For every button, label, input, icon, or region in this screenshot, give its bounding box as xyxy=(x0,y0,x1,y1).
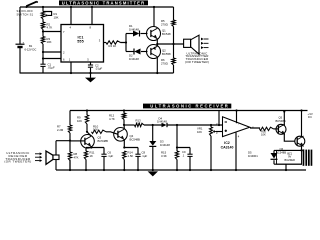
wire Q5 collector xyxy=(283,110,285,125)
svg-text:.01µF: .01µF xyxy=(95,67,102,71)
label transducer tx xyxy=(185,51,209,63)
wire IC1 pin5 stub xyxy=(90,62,92,73)
battery B1 xyxy=(16,40,25,47)
svg-text:10K: 10K xyxy=(77,119,82,123)
wire Q6 emitter xyxy=(301,145,303,150)
svg-text:(OR TWEETER): (OR TWEETER) xyxy=(4,160,31,164)
svg-text:1N4148: 1N4148 xyxy=(157,119,167,123)
svg-text:Q5: Q5 xyxy=(279,116,283,120)
wire output node to speaker xyxy=(156,43,183,45)
resistor R8 bias lower xyxy=(68,140,71,170)
svg-text:BC558: BC558 xyxy=(162,52,171,56)
wire D5 branch xyxy=(273,150,275,153)
svg-text:10K: 10K xyxy=(93,127,98,131)
diode D4 xyxy=(162,123,168,127)
wire pin3 out xyxy=(104,42,107,44)
svg-text:BC548B: BC548B xyxy=(98,139,109,143)
wire mic top xyxy=(56,141,70,155)
wire emitter bus Q4 xyxy=(124,148,138,155)
resistor R15 load xyxy=(175,151,178,171)
label R9 xyxy=(77,115,82,122)
title bar: ULTRASONIC RECEIVER xyxy=(143,104,231,109)
label R3 xyxy=(47,37,52,44)
wire Q2 emitter xyxy=(156,44,158,46)
label C2 xyxy=(95,63,102,70)
wire mic bottom xyxy=(55,160,57,171)
svg-text:BC548B: BC548B xyxy=(130,137,141,141)
node mic base xyxy=(69,140,71,142)
svg-text:.1µF: .1µF xyxy=(108,154,114,158)
potentiometer VR1 xyxy=(210,127,218,136)
wire Q3 base xyxy=(70,140,85,142)
svg-text:1N4148: 1N4148 xyxy=(160,143,170,147)
capacitor C8 xyxy=(135,154,140,171)
diode D1 xyxy=(133,31,140,37)
sound arrows xyxy=(201,38,209,49)
potentiometer R1 xyxy=(41,12,51,20)
label R14 xyxy=(128,150,134,157)
op-amp IC2 CA3140 xyxy=(223,117,250,137)
wire IC2 pin4 xyxy=(235,133,237,172)
label R6 xyxy=(161,58,168,65)
svg-text:10K: 10K xyxy=(54,15,59,19)
label Q6 xyxy=(276,147,286,155)
label D1 xyxy=(129,24,139,31)
diode D2 xyxy=(134,49,141,55)
buzzer BZ1 box xyxy=(277,150,302,164)
wire IC2 pin7 xyxy=(235,109,237,123)
wire R15 branch xyxy=(176,125,178,151)
label R4 xyxy=(109,44,117,48)
svg-text:B1: B1 xyxy=(29,44,33,48)
capacitor C9 xyxy=(187,154,192,171)
label R1 xyxy=(54,12,59,19)
mic arrows xyxy=(35,152,42,162)
wire emitter bus Q3 xyxy=(86,148,104,155)
svg-text:1.5K: 1.5K xyxy=(128,154,134,158)
label S1 on/off switch xyxy=(17,9,34,16)
svg-text:10K: 10K xyxy=(197,130,202,134)
svg-text:4.7K: 4.7K xyxy=(109,117,115,121)
wire top rail transmitter xyxy=(20,6,174,8)
svg-text:1N4001: 1N4001 xyxy=(248,154,258,158)
label VR1 xyxy=(197,126,203,133)
label R12 xyxy=(109,113,115,120)
wire Q2 collector xyxy=(156,57,158,74)
svg-text:ULTRASONIC TRANSMITTER: ULTRASONIC TRANSMITTER xyxy=(62,0,146,5)
label C8 xyxy=(142,150,148,157)
svg-text:4.7K: 4.7K xyxy=(47,26,53,30)
mic transducer xyxy=(46,151,59,164)
capacitor C6 xyxy=(101,154,106,171)
transistor Q1 xyxy=(147,27,161,41)
svg-text:1K: 1K xyxy=(90,154,94,158)
label D2 xyxy=(129,53,139,60)
title bar: ULTRASONIC TRANSMITTER xyxy=(59,0,148,5)
wire IC1 pin1 stub xyxy=(70,62,72,74)
resistor R11 emitter xyxy=(84,151,87,171)
wire Q5 emitter xyxy=(284,133,295,141)
wire Q1 emitter xyxy=(156,39,158,44)
svg-text:3.3K: 3.3K xyxy=(161,154,167,158)
svg-text:IC2: IC2 xyxy=(224,141,230,145)
label IC2 xyxy=(221,141,234,150)
resistor R9 collector xyxy=(85,109,88,131)
wire buzzer bottom xyxy=(274,163,302,165)
label R13 xyxy=(136,118,142,125)
wire top rail receiver xyxy=(70,110,308,112)
label Q4 xyxy=(130,134,141,141)
svg-text:47K: 47K xyxy=(74,155,79,159)
svg-text:SWITCH S1: SWITCH S1 xyxy=(17,12,34,16)
resistor R12 collector xyxy=(122,109,125,125)
diode D5 xyxy=(271,153,278,159)
svg-text:ULTRASONIC RECEIVER: ULTRASONIC RECEIVER xyxy=(150,104,229,109)
svg-text:BC548: BC548 xyxy=(162,32,171,36)
label R10 xyxy=(93,125,99,132)
svg-text:BUZZER: BUZZER xyxy=(285,158,296,162)
capacitor C2 xyxy=(88,65,93,67)
wire left battery branch xyxy=(19,7,21,74)
svg-text:270Ω: 270Ω xyxy=(161,61,168,65)
pin numbers IC1 xyxy=(63,25,101,61)
svg-text:(OR TWEETER): (OR TWEETER) xyxy=(185,60,209,64)
wire pin2 xyxy=(42,51,61,53)
wire Q4 collector xyxy=(123,124,125,130)
ground receiver xyxy=(148,171,158,176)
svg-text:CA3140: CA3140 xyxy=(221,145,234,149)
wire IC1 pin4 stub xyxy=(70,6,72,25)
svg-text:.01µF: .01µF xyxy=(48,66,55,70)
wire C9 link xyxy=(176,146,190,154)
label R11 xyxy=(90,150,95,157)
transistor Q2 xyxy=(147,45,161,59)
wire left riser xyxy=(69,111,71,172)
label R8 xyxy=(74,152,79,159)
label C9 xyxy=(182,150,186,157)
pin numbers IC2 xyxy=(216,122,254,139)
resistor R4 xyxy=(106,41,121,44)
wire buzzer top xyxy=(274,149,303,151)
resistor R16 output xyxy=(260,127,274,130)
svg-text:2.2M: 2.2M xyxy=(57,128,64,132)
label R16 xyxy=(261,129,266,136)
label D5 xyxy=(248,150,258,157)
resistor R3 xyxy=(41,37,44,45)
ground transmitter xyxy=(85,72,96,83)
svg-text:1N4148: 1N4148 xyxy=(129,27,139,31)
wire Q4 base xyxy=(106,132,118,135)
wire bottom rail receiver xyxy=(56,169,306,171)
op-amp IC1 555 box xyxy=(61,25,104,63)
transistor Q4 xyxy=(114,128,128,142)
node top rail R1 xyxy=(42,6,44,8)
wire R1 chain xyxy=(42,7,44,73)
wire wiper to opamp xyxy=(216,131,222,133)
label +9V xyxy=(308,112,314,119)
label R5 xyxy=(161,19,168,26)
wire IC1 pin8 stub xyxy=(91,6,93,25)
switch S1 xyxy=(26,1,39,8)
wire bottom rail transmitter xyxy=(20,72,174,74)
svg-text:270Ω: 270Ω xyxy=(161,22,168,26)
wire D5 bottom xyxy=(273,160,275,164)
label R7 xyxy=(57,124,64,131)
resistor R7 bias upper xyxy=(68,125,71,133)
label Q5 xyxy=(276,116,286,124)
wire to D2 xyxy=(126,51,134,53)
label Q2 xyxy=(162,48,171,55)
speaker transducer xyxy=(184,35,199,54)
label R15 xyxy=(161,150,167,157)
svg-text:555: 555 xyxy=(77,40,83,44)
resistor R6 xyxy=(172,44,175,73)
resistor R13 xyxy=(135,123,145,126)
buzzer piezo plates xyxy=(303,149,313,165)
transistor Q5 xyxy=(276,124,286,134)
resistor R10 xyxy=(92,130,107,133)
label C1 xyxy=(48,62,55,69)
wire Q4 emitter xyxy=(123,140,125,149)
svg-text:DC: DC xyxy=(308,115,312,119)
svg-text:10K: 10K xyxy=(47,40,52,44)
wire Q6 collector xyxy=(300,109,302,137)
resistor R2 xyxy=(41,22,44,30)
svg-text:6-12V DC: 6-12V DC xyxy=(25,48,37,52)
wire D1 to Q1 xyxy=(141,33,148,35)
wire VR1 branch xyxy=(210,125,212,171)
wire base junction xyxy=(121,34,128,52)
svg-text:.1µF: .1µF xyxy=(142,154,148,158)
label R2 xyxy=(47,22,53,29)
transistor Q6 xyxy=(295,136,305,146)
diode D3 xyxy=(149,141,156,146)
wire ref stub xyxy=(218,111,220,126)
wire Q5 base xyxy=(274,128,279,130)
svg-text:10K: 10K xyxy=(136,121,141,125)
label C6 xyxy=(108,150,114,157)
label transducer rx xyxy=(4,151,31,164)
resistor R5 xyxy=(172,7,175,44)
wire to D1 xyxy=(126,33,133,35)
label Q3 xyxy=(98,136,109,143)
wire D3 branch xyxy=(152,125,154,141)
wire IC2 output xyxy=(250,127,260,130)
wire Q3 collector node xyxy=(86,131,91,137)
wire R13 link xyxy=(124,124,135,126)
transistor Q3 xyxy=(81,135,95,149)
label D3 xyxy=(160,139,170,146)
label D4 xyxy=(157,116,167,123)
wire det node xyxy=(144,124,162,126)
wire pin7 xyxy=(42,30,61,32)
wire pin6 xyxy=(42,57,61,59)
wire buzzer return xyxy=(285,164,287,171)
resistor R14 emitter xyxy=(123,151,126,171)
label B1 xyxy=(25,44,37,52)
svg-text:1N4148: 1N4148 xyxy=(129,57,139,61)
label Q1 xyxy=(162,28,171,35)
wire D3 bottom xyxy=(152,147,154,171)
svg-text:10K: 10K xyxy=(261,133,266,137)
capacitor C1 xyxy=(40,64,45,66)
wire det out xyxy=(168,124,223,126)
svg-text:R4 1K: R4 1K xyxy=(109,44,117,48)
wire D2 to Q2 xyxy=(141,51,148,53)
wire Q3 emitter xyxy=(90,146,92,148)
wire Q1 collector xyxy=(153,6,155,27)
